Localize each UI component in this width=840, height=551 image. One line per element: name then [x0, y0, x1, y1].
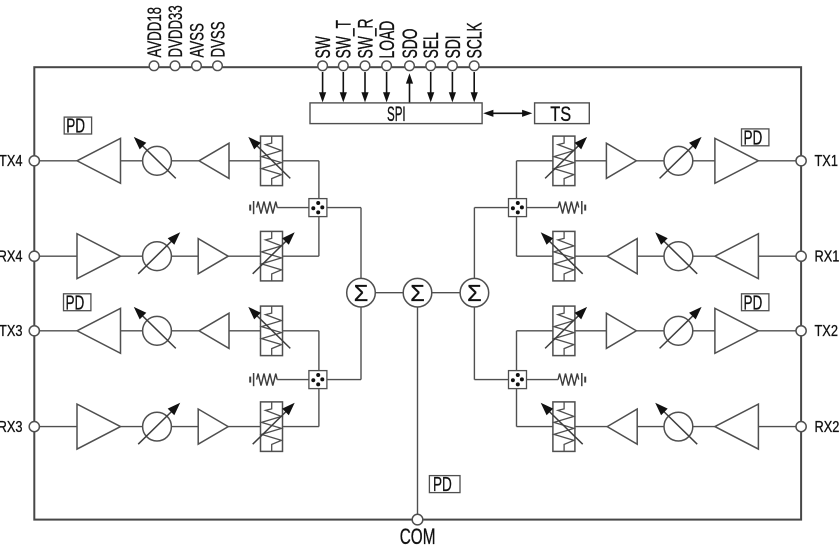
wire — [318, 331, 320, 371]
svg-text:PD: PD — [744, 290, 763, 314]
wire — [517, 255, 553, 257]
wire — [327, 207, 361, 209]
switch matrix SW4/SW4b — [309, 199, 327, 217]
svg-text:TX3: TX3 — [0, 323, 22, 341]
wire — [758, 330, 796, 332]
svg-text:RX2: RX2 — [815, 419, 840, 437]
pin DVDD33 — [165, 5, 187, 70]
wire — [171, 426, 198, 428]
svg-text:AVSS: AVSS — [186, 23, 208, 57]
svg-text:AVDD18: AVDD18 — [144, 7, 166, 58]
wire — [39, 426, 77, 428]
variable attenuator TX3 — [248, 306, 290, 356]
svg-text:RX3: RX3 — [0, 419, 22, 437]
TS block — [535, 102, 590, 125]
phase shifter RX3 — [138, 403, 180, 445]
amplifier TX1 output — [715, 138, 759, 183]
svg-text:DVSS: DVSS — [207, 21, 229, 57]
termination resistor SW3 — [250, 373, 277, 386]
wire — [39, 255, 77, 257]
wire — [516, 331, 518, 371]
svg-text:TS: TS — [550, 102, 571, 125]
amplifier RX3 driver — [198, 409, 228, 444]
wire SCLK to SPI — [471, 72, 478, 102]
svg-text:SCLK: SCLK — [463, 22, 487, 58]
svg-text:COM: COM — [400, 525, 436, 550]
pin AVSS — [186, 23, 208, 70]
wire — [318, 389, 320, 427]
pin SW_T — [332, 20, 357, 71]
amplifier TX3 output — [77, 308, 121, 353]
svg-text:SDO: SDO — [398, 28, 422, 58]
variable attenuator TX1 — [545, 136, 587, 186]
amplifier RX1 driver — [607, 239, 637, 274]
wire — [517, 426, 553, 428]
wire — [417, 307, 419, 514]
PD control common — [429, 472, 460, 496]
wire — [474, 207, 508, 209]
summer center — [403, 278, 432, 307]
wire — [327, 379, 361, 381]
summer right — [460, 278, 489, 307]
amplifier TX2 output — [715, 308, 759, 353]
svg-text:SEL: SEL — [419, 32, 443, 58]
wire — [517, 160, 553, 162]
amplifier TX4 driver — [199, 143, 229, 178]
amplifier RX2 driver — [607, 409, 637, 444]
amplifier TX2 driver — [606, 313, 636, 348]
wire — [636, 330, 664, 332]
wire — [637, 255, 664, 257]
wire — [637, 426, 664, 428]
svg-text:LOAD: LOAD — [375, 21, 399, 59]
wire — [360, 307, 362, 380]
wire — [283, 160, 319, 162]
variable attenuator RX3 — [253, 402, 295, 452]
wire — [229, 160, 261, 162]
pin SDI — [441, 35, 465, 70]
phase shifter TX2 — [660, 307, 702, 349]
wire — [693, 255, 715, 257]
termination resistor SW1 — [558, 201, 585, 214]
amplifier RX1 LNA — [715, 234, 759, 279]
phase shifter RX4 — [138, 232, 180, 273]
pin TX1 — [796, 153, 838, 171]
svg-text:PD: PD — [433, 472, 452, 496]
wire — [517, 330, 553, 332]
amplifier RX2 LNA — [715, 404, 759, 449]
wire — [318, 217, 320, 257]
switch matrix SW1 — [509, 199, 527, 217]
termination resistor SW4/SW4b — [250, 201, 277, 214]
wire — [693, 330, 715, 332]
summer left — [347, 278, 376, 307]
pin SEL — [419, 32, 443, 70]
switch matrix SW3 — [309, 371, 327, 389]
wire SDI to SPI — [449, 72, 456, 102]
svg-text:SPI: SPI — [387, 102, 406, 126]
wire — [171, 330, 199, 332]
wire — [516, 161, 518, 199]
phase shifter TX3 — [134, 307, 176, 349]
wire — [39, 160, 77, 162]
wire — [121, 160, 143, 162]
wire — [575, 330, 607, 332]
svg-text:Σ: Σ — [410, 280, 425, 306]
phase shifter TX4 — [134, 137, 176, 179]
pin TX4 — [0, 153, 39, 171]
wire — [283, 426, 319, 428]
wire SW to SPI — [319, 72, 326, 102]
svg-text:SDI: SDI — [441, 35, 465, 58]
wire — [318, 161, 320, 199]
wire — [277, 379, 309, 381]
wire — [516, 217, 518, 257]
variable attenuator RX1 — [541, 231, 583, 281]
termination resistor SW2 — [558, 373, 585, 386]
wire — [527, 379, 559, 381]
wire — [283, 255, 319, 257]
PD control TX4/RX4 — [64, 114, 91, 138]
variable attenuator TX4 — [248, 136, 290, 186]
variable attenuator RX2 — [541, 402, 583, 452]
variable attenuator RX4 — [253, 231, 295, 281]
chip boundary — [34, 67, 801, 519]
wire SW_R to SPI — [361, 72, 368, 102]
wire — [171, 255, 198, 257]
wire — [121, 330, 143, 332]
wire — [693, 160, 715, 162]
amplifier TX3 driver — [199, 313, 229, 348]
pin SW — [311, 36, 335, 71]
wire — [473, 307, 475, 380]
pin RX4 — [0, 248, 39, 266]
pin RX1 — [796, 248, 839, 266]
phase shifter TX1 — [660, 137, 702, 179]
wire — [636, 160, 664, 162]
wire — [527, 207, 559, 209]
wire — [283, 330, 319, 332]
wire — [171, 160, 199, 162]
svg-text:TX4: TX4 — [0, 153, 22, 171]
wire — [39, 330, 77, 332]
wire — [473, 208, 475, 279]
svg-text:TX1: TX1 — [815, 153, 838, 171]
wire — [121, 426, 143, 428]
phase shifter RX1 — [655, 232, 697, 273]
PD control TX3/RX3 — [64, 290, 91, 314]
pin DVSS — [207, 21, 229, 70]
variable attenuator TX2 — [545, 306, 587, 356]
wire — [474, 379, 508, 381]
wire — [516, 389, 518, 427]
svg-text:TX2: TX2 — [815, 323, 838, 341]
wire — [121, 255, 143, 257]
PD control TX1/RX1 — [742, 126, 769, 150]
wire — [758, 426, 796, 428]
wire SPI-TS bidirectional — [483, 110, 532, 117]
svg-text:Σ: Σ — [354, 280, 369, 306]
pin SW_R — [354, 18, 379, 70]
svg-text:PD: PD — [744, 126, 763, 150]
wire — [228, 255, 260, 257]
pin SDO — [398, 28, 422, 70]
amplifier TX1 driver — [606, 143, 636, 178]
amplifier RX3 LNA — [77, 404, 121, 449]
svg-text:Σ: Σ — [467, 280, 482, 306]
wire SEL to SPI — [427, 72, 434, 102]
wire — [375, 292, 403, 294]
pin RX3 — [0, 419, 39, 437]
wire — [360, 208, 362, 279]
wire — [228, 426, 260, 428]
pin COM — [400, 514, 436, 550]
svg-text:RX1: RX1 — [815, 248, 840, 266]
PD control TX2/RX2 — [742, 290, 769, 314]
wire — [229, 330, 261, 332]
wire — [432, 292, 460, 294]
svg-text:PD: PD — [66, 290, 85, 314]
SPI block U1 — [310, 102, 482, 126]
pin LOAD — [375, 21, 399, 71]
wire — [575, 255, 607, 257]
wire LOAD to SPI — [383, 72, 390, 102]
pin SCLK — [463, 22, 487, 70]
wire — [693, 426, 715, 428]
wire SW_T to SPI — [340, 72, 347, 102]
pin RX2 — [796, 419, 839, 437]
wire SPI to SDO — [406, 73, 413, 102]
switch matrix SW2 — [509, 371, 527, 389]
wire — [575, 426, 607, 428]
amplifier TX4 output — [77, 138, 121, 183]
pin AVDD18 — [144, 7, 166, 71]
amplifier RX4 driver — [198, 239, 228, 274]
pin TX3 — [0, 323, 39, 341]
wire — [758, 255, 796, 257]
amplifier RX4 LNA — [77, 234, 121, 279]
wire — [575, 160, 607, 162]
phase shifter RX2 — [655, 403, 697, 445]
svg-text:PD: PD — [66, 114, 85, 138]
wire — [277, 207, 309, 209]
svg-text:DVDD33: DVDD33 — [165, 5, 187, 57]
svg-text:RX4: RX4 — [0, 248, 22, 266]
wire — [758, 160, 796, 162]
pin TX2 — [796, 323, 838, 341]
